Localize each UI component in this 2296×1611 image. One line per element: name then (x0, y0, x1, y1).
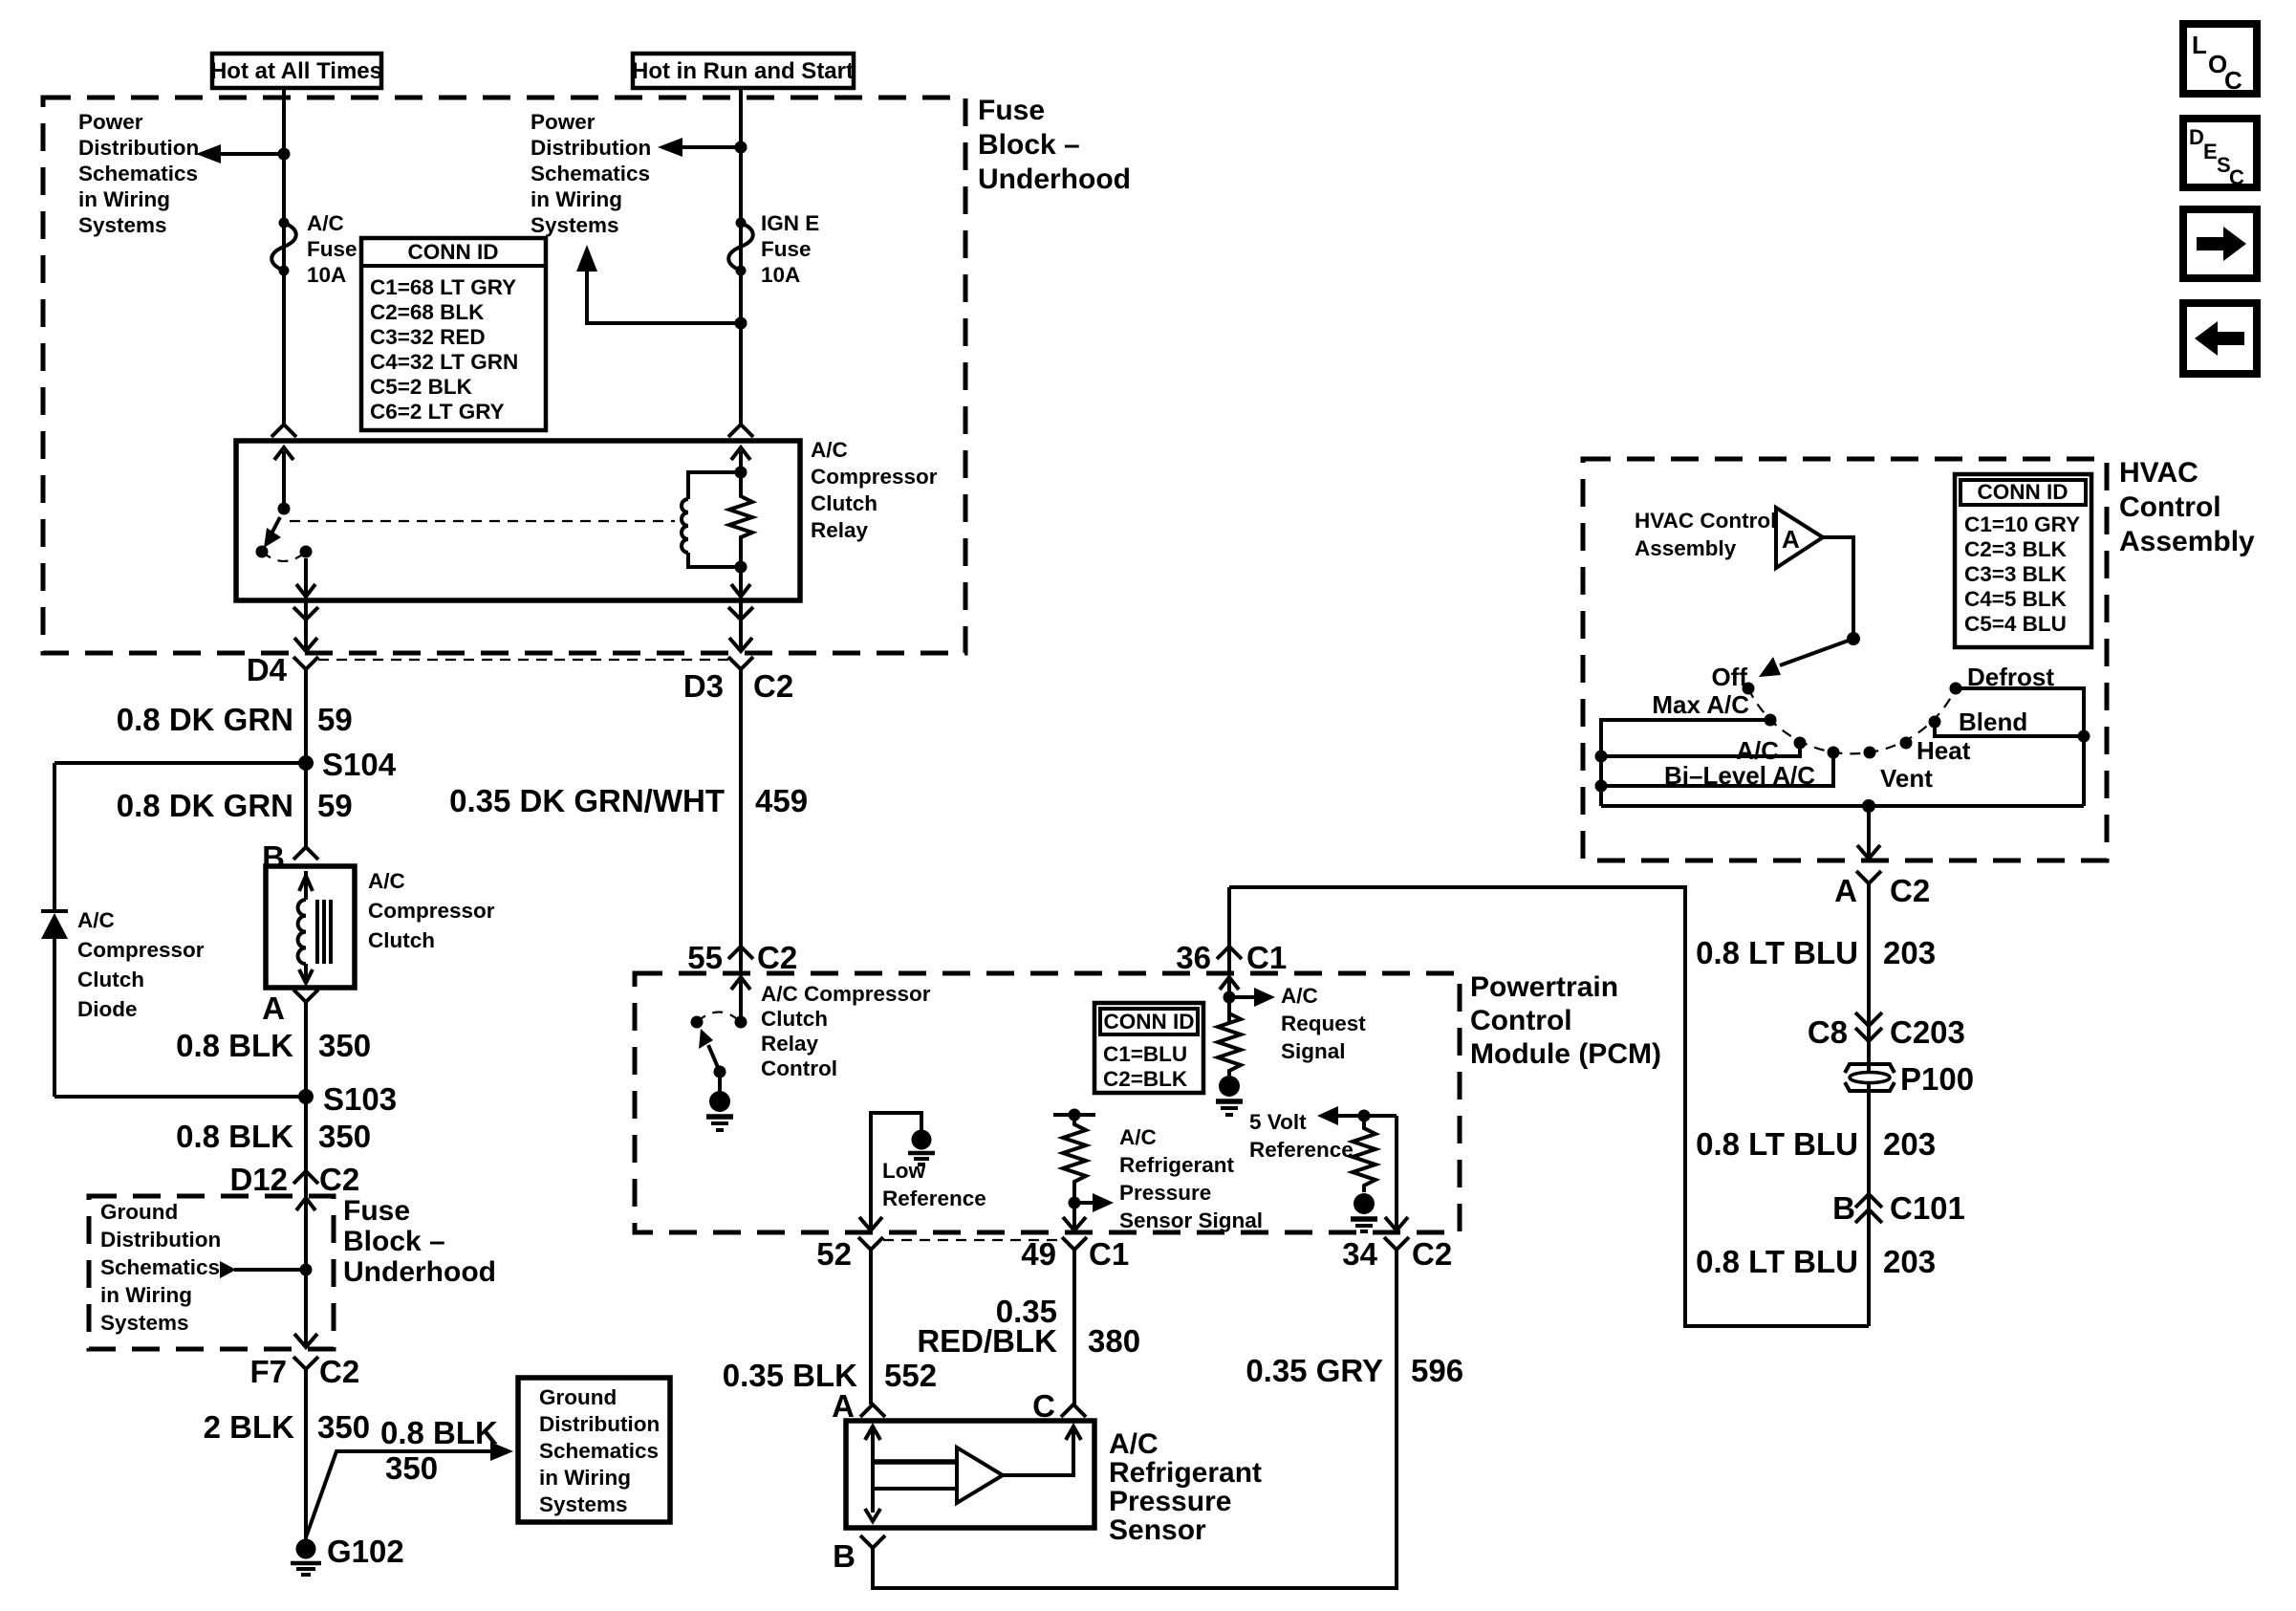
svg-text:RED/BLK: RED/BLK (917, 1323, 1057, 1359)
svg-text:Clutch: Clutch (368, 928, 435, 952)
svg-text:C8: C8 (1808, 1014, 1848, 1050)
svg-text:in Wiring: in Wiring (531, 187, 622, 211)
wire HVAC output down (1867, 883, 1871, 1326)
svg-text:A/C: A/C (811, 438, 848, 462)
arrow from ground distribution text to wire (220, 1261, 313, 1278)
node Vent (1864, 747, 1934, 794)
svg-text:203: 203 (1883, 935, 1936, 970)
svg-text:0.8 BLK: 0.8 BLK (176, 1028, 293, 1063)
label HVAC Control Assembly (outer) (2119, 457, 2255, 557)
label Fuse Block - Underhood (ground) (343, 1195, 496, 1288)
svg-text:C: C (2229, 165, 2244, 189)
connector half below relay pin 87 (293, 607, 318, 620)
PCM pressure sensor branch arrow right (1069, 1193, 1115, 1212)
svg-text:2 BLK: 2 BLK (204, 1409, 295, 1445)
wire diode branch top (54, 761, 306, 765)
svg-text:D3: D3 (683, 668, 724, 704)
wire Defrost line (1956, 688, 2084, 806)
wire A/C line (1595, 743, 1801, 763)
wire selector to pivot (1823, 537, 1860, 645)
svg-text:Pressure: Pressure (1109, 1486, 1231, 1517)
ground distribution solid box (518, 1378, 670, 1522)
wire Max A/C line (1601, 720, 1770, 806)
svg-text:Hot in Run and Start: Hot in Run and Start (632, 58, 854, 84)
connector table CONN ID HVAC (1955, 474, 2091, 647)
wire diode branch left lower (53, 939, 56, 1097)
svg-text:A/C: A/C (77, 908, 115, 932)
svg-text:Schematics: Schematics (539, 1439, 659, 1463)
svg-text:0.8 DK GRN: 0.8 DK GRN (117, 788, 293, 823)
svg-text:A/C: A/C (1281, 984, 1318, 1008)
svg-text:350: 350 (385, 1450, 438, 1486)
relay A/C compressor clutch relay box (236, 441, 800, 600)
label A/C Refrigerant Pressure Sensor (1109, 1428, 1262, 1546)
wire rotary common bottom (1601, 799, 2084, 813)
svg-text:A/C: A/C (1119, 1125, 1157, 1149)
label 0.8 BLK 350 branch (380, 1415, 498, 1486)
wire relay pin 87 below box (304, 600, 308, 649)
relay switch contact (300, 546, 313, 558)
relay coil pin arrow up (731, 447, 750, 472)
connector pin 30 into relay (271, 425, 296, 437)
connector D12 C2 (229, 1162, 359, 1197)
svg-text:C101: C101 (1890, 1190, 1965, 1226)
svg-text:G102: G102 (327, 1534, 404, 1569)
connector table CONN ID PCM (1094, 1003, 1203, 1093)
svg-text:Control: Control (2119, 491, 2221, 523)
svg-text:0.8 BLK: 0.8 BLK (176, 1119, 293, 1154)
svg-text:S104: S104 (322, 747, 397, 782)
PCM low reference ground (908, 1130, 935, 1165)
connector pin C into sensor (1032, 1388, 1086, 1424)
svg-text:A: A (1834, 873, 1857, 908)
svg-text:A: A (262, 991, 285, 1026)
svg-text:59: 59 (317, 788, 353, 823)
PCM 5 volt reference feed line (1317, 1106, 1397, 1125)
svg-text:Control: Control (1470, 1005, 1572, 1036)
relay switch output arrow down (296, 558, 315, 597)
svg-text:5 Volt: 5 Volt (1249, 1110, 1307, 1134)
svg-text:Refrigerant: Refrigerant (1119, 1153, 1235, 1177)
svg-text:C1=10 GRY: C1=10 GRY (1964, 512, 2080, 536)
connector A C2 below HVAC (1834, 871, 1930, 908)
svg-text:52: 52 (816, 1236, 852, 1272)
sensor opamp output to pin C (1003, 1426, 1081, 1475)
label A/C Refrigerant Pressure Sensor Signal (1119, 1125, 1263, 1232)
connector pin B below sensor (833, 1535, 885, 1574)
wire HVAC output to border (1857, 806, 1880, 859)
label 0.8 BLK 350 (lower) (176, 1119, 371, 1154)
svg-text:HVAC Control: HVAC Control (1635, 509, 1776, 533)
fuse IGN E 10A (728, 218, 753, 276)
PCM switch contact on wire (735, 1016, 747, 1029)
label 0.35 GRY 596 (1245, 1353, 1463, 1388)
svg-text:Ground: Ground (539, 1385, 617, 1409)
wire 49 to sensor pin C (1072, 1250, 1076, 1404)
splice S103 (298, 1081, 397, 1117)
label Powertrain Control Module (PCM) (1470, 971, 1661, 1070)
icon LOC box (2183, 24, 2257, 95)
A/C refrigerant pressure sensor box (846, 1421, 1094, 1528)
svg-text:C5=2 BLK: C5=2 BLK (370, 375, 473, 399)
connector 36 C1 (1176, 940, 1287, 975)
icon arrow left box (2183, 303, 2257, 374)
A/C compressor clutch box (266, 866, 355, 988)
relay internal dashed link (290, 520, 675, 522)
splice S104 (298, 747, 397, 782)
svg-text:Compressor: Compressor (368, 899, 495, 923)
PCM low reference bracket (859, 1113, 921, 1230)
svg-text:0.8 BLK: 0.8 BLK (380, 1415, 498, 1450)
svg-text:Control: Control (761, 1056, 837, 1080)
node Heat (1900, 736, 1971, 765)
svg-text:36: 36 (1176, 940, 1211, 975)
svg-text:Hot at All Times: Hot at All Times (210, 58, 382, 84)
node Off (1711, 663, 1754, 695)
svg-text:0.8 LT BLU: 0.8 LT BLU (1696, 935, 1858, 970)
label 0.8 DK GRN 59 (lower) (117, 788, 353, 823)
svg-text:L: L (2192, 31, 2207, 59)
svg-text:D: D (2189, 125, 2204, 149)
wire clutch to S103 (304, 1002, 308, 1171)
svg-text:C1=BLU: C1=BLU (1103, 1042, 1187, 1066)
node Max A/C (1652, 690, 1776, 727)
svg-text:0.35 GRY: 0.35 GRY (1245, 1353, 1383, 1388)
svg-text:Powertrain: Powertrain (1470, 971, 1618, 1003)
svg-text:A/C: A/C (307, 211, 344, 235)
label 0.35 DK GRN/WHT 459 (449, 783, 808, 818)
svg-text:Clutch: Clutch (811, 491, 877, 515)
svg-text:Heat: Heat (1917, 736, 1971, 765)
node Defrost (1950, 663, 2055, 695)
svg-text:Schematics: Schematics (531, 162, 650, 185)
svg-text:0.35 DK GRN/WHT: 0.35 DK GRN/WHT (449, 783, 725, 818)
svg-text:in Wiring: in Wiring (100, 1283, 192, 1307)
svg-text:Power: Power (531, 110, 596, 134)
svg-text:Sensor Signal: Sensor Signal (1119, 1208, 1263, 1232)
relay switch throw arc (262, 552, 306, 561)
svg-text:C: C (2224, 66, 2242, 95)
svg-text:Underhood: Underhood (343, 1256, 496, 1288)
svg-text:Systems: Systems (78, 213, 167, 237)
svg-text:Fuse: Fuse (978, 95, 1045, 126)
label A/C Compressor Clutch Diode (77, 908, 205, 1021)
sensor opamp inputs (873, 1462, 957, 1489)
svg-text:CONN ID: CONN ID (1104, 1010, 1195, 1034)
svg-text:55: 55 (687, 940, 723, 975)
fuse block underhood dashed box (43, 98, 965, 653)
svg-text:350: 350 (317, 1409, 370, 1445)
svg-text:Distribution: Distribution (539, 1412, 660, 1436)
wire power distribution branch left (196, 144, 291, 163)
svg-text:B: B (1832, 1190, 1855, 1226)
label 0.8 LT BLU 203 (1) (1696, 935, 1936, 970)
svg-text:Request: Request (1281, 1012, 1366, 1035)
rotary dashed arc (1748, 688, 1956, 753)
arrow down at fuse block border pin 85 (729, 638, 752, 651)
svg-text:C2: C2 (757, 940, 797, 975)
svg-text:D12: D12 (229, 1162, 288, 1197)
svg-text:C203: C203 (1890, 1014, 1965, 1050)
svg-text:C2: C2 (1890, 873, 1930, 908)
wire Bi-Level line (1595, 752, 1834, 793)
svg-text:in Wiring: in Wiring (539, 1466, 631, 1490)
svg-text:596: 596 (1411, 1353, 1463, 1388)
arrow down at fuse block border pin 87 (294, 638, 317, 651)
svg-text:C2: C2 (319, 1162, 359, 1197)
svg-text:Block –: Block – (343, 1226, 445, 1257)
svg-text:Relay: Relay (761, 1032, 819, 1056)
label 0.8 LT BLU 203 (3) (1696, 1244, 1936, 1279)
label 5 Volt Reference (1249, 1110, 1354, 1162)
svg-text:34: 34 (1342, 1236, 1377, 1272)
svg-text:49: 49 (1021, 1236, 1056, 1272)
PCM relay control pin arrow up (731, 977, 750, 1022)
label A/C Request Signal (1281, 984, 1366, 1063)
HVAC control assembly dashed box (1583, 459, 2107, 860)
ground distribution dashed box (89, 1196, 334, 1349)
svg-text:CONN ID: CONN ID (1978, 480, 2069, 504)
svg-text:Assembly: Assembly (1635, 536, 1737, 560)
wire D3 to PCM pin 55 (739, 669, 743, 947)
svg-text:HVAC: HVAC (2119, 457, 2199, 489)
svg-text:Sensor: Sensor (1109, 1514, 1206, 1546)
svg-text:C1: C1 (1089, 1236, 1129, 1272)
label HVAC Control Assembly (inner) (1635, 509, 1776, 560)
wire Blend line (1935, 722, 2090, 743)
dashed connector link 52 to 49 (883, 1239, 1062, 1241)
connector 55 C2 (687, 940, 797, 975)
grommet P100 (1845, 1061, 1974, 1097)
svg-text:C6=2 LT GRY: C6=2 LT GRY (370, 400, 505, 424)
PCM pressure sensor resistor (1063, 1115, 1086, 1197)
connector pin A below clutch (262, 990, 318, 1026)
sensor pin A internal arrows (865, 1426, 880, 1521)
svg-text:C2: C2 (753, 668, 793, 704)
svg-text:Assembly: Assembly (2119, 526, 2255, 557)
label IGN E Fuse 10A (761, 211, 819, 287)
wire branch to ground distribution schematics (306, 1442, 513, 1537)
svg-text:Module (PCM): Module (PCM) (1470, 1038, 1661, 1070)
PCM request branch arrow right (1224, 988, 1276, 1007)
PCM 5 volt resistor (1353, 1116, 1375, 1192)
svg-text:Fuse: Fuse (761, 237, 812, 261)
svg-text:Distribution: Distribution (531, 136, 651, 160)
node A/C (1736, 736, 1806, 765)
svg-text:D4: D4 (247, 652, 288, 687)
wire relay pin 85 below box (739, 600, 743, 649)
svg-text:Distribution: Distribution (78, 136, 199, 160)
wire power distribution branch right (658, 138, 747, 157)
svg-text:P100: P100 (1900, 1061, 1974, 1097)
svg-text:0.8 LT BLU: 0.8 LT BLU (1696, 1126, 1858, 1162)
svg-text:Refrigerant: Refrigerant (1109, 1457, 1262, 1489)
label Low Reference (882, 1159, 986, 1210)
svg-text:C2: C2 (1412, 1236, 1452, 1272)
connector table CONN ID fuse block (361, 238, 546, 430)
wire diode branch bottom (54, 1095, 306, 1099)
connector 52 (816, 1236, 883, 1272)
svg-text:Clutch: Clutch (77, 968, 144, 991)
svg-text:203: 203 (1883, 1126, 1936, 1162)
connector C8 C203 (1808, 1012, 1965, 1050)
svg-text:350: 350 (318, 1028, 371, 1063)
svg-text:C1: C1 (1246, 940, 1287, 975)
dashed connector link D4 to D3 (318, 659, 728, 661)
connector pin B into clutch (262, 839, 318, 875)
svg-text:C5=4 BLU: C5=4 BLU (1964, 612, 2067, 636)
svg-text:C2: C2 (319, 1354, 359, 1389)
PCM pressure sensor signal bar (1053, 1109, 1095, 1121)
svg-text:Low: Low (882, 1159, 925, 1183)
svg-text:C4=5 BLK: C4=5 BLK (1964, 587, 2068, 611)
svg-text:Max A/C: Max A/C (1652, 690, 1749, 719)
relay switch arm (256, 503, 291, 558)
svg-text:C2=3 BLK: C2=3 BLK (1964, 537, 2068, 561)
wire diode branch left upper (53, 763, 56, 911)
PCM request pin arrow up (1220, 977, 1239, 1022)
svg-text:203: 203 (1883, 1244, 1936, 1279)
wire HVAC loop bottom and left (1229, 887, 1869, 1326)
connector 49 C1 (1021, 1236, 1129, 1272)
svg-text:Systems: Systems (531, 213, 619, 237)
PCM powertrain control module dashed box (635, 973, 1460, 1232)
node Hot at All Times (210, 54, 382, 88)
selector arm arrow to Off (1759, 639, 1853, 677)
svg-text:B: B (833, 1538, 856, 1574)
PCM switch throw arc (697, 1012, 741, 1023)
connector pin A into sensor (832, 1388, 885, 1424)
svg-text:Schematics: Schematics (100, 1255, 220, 1279)
svg-text:A: A (1782, 525, 1800, 554)
svg-text:A/C Compressor: A/C Compressor (761, 982, 931, 1006)
svg-text:Systems: Systems (539, 1492, 628, 1516)
sensor opamp triangle (957, 1448, 1003, 1503)
svg-text:Schematics: Schematics (78, 162, 198, 185)
svg-text:Distribution: Distribution (100, 1228, 221, 1252)
label 0.35 BLK 552 (723, 1358, 937, 1393)
label 0.8 DK GRN 59 (upper) (117, 702, 353, 737)
svg-text:10A: 10A (761, 263, 800, 287)
wire 5 volt to pin 34 (1385, 1116, 1408, 1230)
svg-text:Systems: Systems (100, 1311, 189, 1335)
label ground distribution schematics dashed (100, 1200, 221, 1335)
connector D4 C2 (247, 652, 318, 687)
svg-text:0.8 LT BLU: 0.8 LT BLU (1696, 1244, 1858, 1279)
ground G102 (291, 1534, 404, 1575)
svg-text:in Wiring: in Wiring (78, 187, 170, 211)
relay switch common pin arrow (274, 447, 293, 509)
svg-text:459: 459 (755, 783, 808, 818)
svg-text:Reference: Reference (1249, 1138, 1354, 1162)
clutch coil with core (298, 871, 331, 983)
svg-text:552: 552 (884, 1358, 937, 1393)
svg-text:C2=BLK: C2=BLK (1103, 1067, 1188, 1091)
svg-text:Pressure: Pressure (1119, 1181, 1211, 1205)
PCM request pulldown resistor (1218, 1009, 1241, 1076)
node Blend (1929, 708, 2028, 736)
connector D3 C2 (683, 657, 793, 704)
PCM 5 volt resistor ground (1351, 1193, 1377, 1231)
svg-text:Fuse: Fuse (307, 237, 357, 261)
svg-text:Compressor: Compressor (811, 465, 938, 489)
label A/C Fuse 10A (307, 211, 357, 287)
relay coil output arrow down (731, 561, 750, 598)
wire D12 into ground fuse block (294, 1171, 317, 1347)
label Fuse Block - Underhood (978, 95, 1131, 195)
svg-text:Power: Power (78, 110, 143, 134)
PCM request resistor ground (1216, 1076, 1243, 1115)
svg-text:A/C: A/C (368, 869, 405, 893)
svg-text:59: 59 (317, 702, 353, 737)
icon DESC box (2183, 119, 2257, 189)
node Hot in Run and Start (632, 54, 854, 88)
wire branch up-arrow to power distribution (576, 245, 747, 330)
svg-text:F7: F7 (249, 1354, 287, 1389)
node Bi-Level A/C (1664, 747, 1839, 791)
svg-text:350: 350 (318, 1119, 371, 1154)
label ground distribution schematics solid (539, 1385, 660, 1516)
svg-text:10A: 10A (307, 263, 346, 287)
svg-text:C3=3 BLK: C3=3 BLK (1964, 562, 2068, 586)
svg-text:Off: Off (1711, 663, 1747, 691)
diode A/C compressor clutch diode (41, 911, 68, 939)
svg-text:C3=32 RED: C3=32 RED (370, 325, 486, 349)
connector half below relay pin 85 (728, 607, 753, 620)
svg-text:Relay: Relay (811, 518, 869, 542)
fuse A/C 10A (271, 218, 296, 276)
svg-text:S103: S103 (323, 1081, 397, 1117)
svg-text:380: 380 (1088, 1323, 1140, 1359)
svg-text:A/C: A/C (1109, 1428, 1159, 1460)
label 0.35 RED/BLK 380 (917, 1294, 1140, 1359)
PCM switch arm with arrow (699, 1029, 726, 1078)
svg-text:Blend: Blend (1959, 708, 2027, 736)
label 0.8 BLK 350 (upper) (176, 1028, 371, 1063)
connector F7 C2 (249, 1354, 359, 1389)
PCM switch ground (706, 1072, 733, 1130)
label 2 BLK 350 (204, 1409, 370, 1445)
relay resistor (729, 472, 752, 567)
relay coil branch (682, 467, 747, 568)
svg-text:C4=32 LT GRN: C4=32 LT GRN (370, 350, 518, 374)
svg-text:Compressor: Compressor (77, 938, 205, 962)
svg-text:Signal: Signal (1281, 1039, 1346, 1063)
wire F7 to G102 (304, 1369, 308, 1539)
label A/C Compressor Clutch Relay (811, 438, 938, 542)
svg-text:C2=68 BLK: C2=68 BLK (370, 300, 485, 324)
svg-text:C1=68 LT GRY: C1=68 LT GRY (370, 275, 516, 299)
connector B C101 (1832, 1190, 1965, 1226)
svg-text:Ground: Ground (100, 1200, 178, 1224)
svg-text:CONN ID: CONN ID (408, 240, 499, 264)
wire HVAC loop to PCM pin 36 (1227, 887, 1231, 947)
HVAC selector triangle A (1776, 508, 1823, 568)
svg-text:Clutch: Clutch (761, 1007, 828, 1031)
svg-text:Reference: Reference (882, 1186, 986, 1210)
wire battery feed (282, 88, 286, 425)
label A/C Compressor Clutch Relay Control (761, 982, 931, 1080)
icon arrow right box (2183, 209, 2257, 278)
svg-text:0.8 DK GRN: 0.8 DK GRN (117, 702, 293, 737)
label 0.8 LT BLU 203 (2) (1696, 1126, 1936, 1162)
svg-text:Diode: Diode (77, 997, 138, 1021)
svg-text:Fuse: Fuse (343, 1195, 410, 1227)
wire pressure signal to pin 49 (1063, 1203, 1086, 1230)
svg-text:Underhood: Underhood (978, 163, 1131, 195)
PCM switch left contact (691, 1016, 704, 1029)
label power distribution schematics 2 (531, 110, 651, 237)
